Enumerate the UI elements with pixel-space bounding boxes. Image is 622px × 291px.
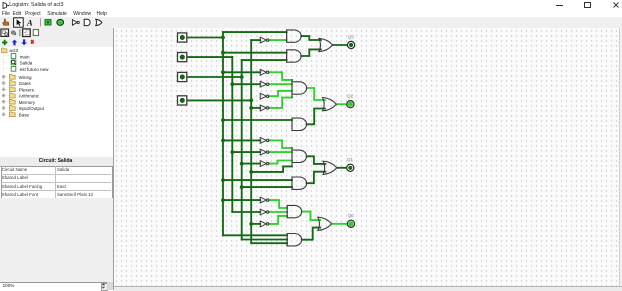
wire A7 output to OR4 input 1	[301, 212, 320, 221]
wire X2 to N3 input	[232, 83, 260, 85]
wire bus X4 vertical (pin3 net)	[240, 60, 242, 239]
AND gate A2	[286, 50, 301, 62]
library row Arithmetic	[2, 93, 40, 99]
input pin P1	[177, 33, 186, 42]
edit tool selected box	[14, 18, 24, 27]
wire OR4 output to pin Q0	[331, 223, 347, 225]
wire X2 to N10 input	[232, 211, 260, 213]
junction J2	[221, 51, 225, 55]
svg-text:Q2: Q2	[347, 94, 354, 99]
gray filler below table	[0, 198, 113, 281]
AND gate A5	[292, 147, 307, 167]
output pin Q2	[346, 101, 353, 108]
input pin P3	[177, 73, 186, 82]
wire N3 output to A3 input 2	[268, 83, 291, 85]
output pin Q3	[347, 42, 354, 49]
NOT gate N9	[260, 197, 269, 203]
wire X4 to N8 input	[241, 163, 260, 165]
library row Base	[2, 112, 29, 118]
library row Wiring	[2, 75, 32, 81]
wire N2 output to A3 input 1	[268, 73, 291, 81]
junction J7	[221, 198, 225, 202]
NOT gate N4	[260, 94, 269, 100]
wire A2 output to OR1 input 2	[301, 50, 321, 57]
wire bus X5 vertical (pin4 net)	[250, 40, 252, 243]
wire X1 to N2 input	[223, 72, 260, 74]
act3 folder icon	[1, 48, 7, 53]
wire A3 output to OR2 input 1	[306, 88, 324, 100]
NOT gate N5	[260, 105, 269, 111]
NOT gate N11	[260, 221, 269, 227]
wire X5 to N1 input	[251, 39, 260, 41]
wire A4 output to OR2 input 2	[306, 109, 324, 125]
library row Memory	[2, 100, 36, 106]
wire bus X1 vertical (pin1 net)	[222, 32, 224, 235]
svg-text:Q1: Q1	[346, 157, 353, 162]
junction J1	[221, 36, 225, 40]
separator	[19, 29, 20, 36]
junction J16	[249, 222, 253, 226]
junction J11	[239, 162, 243, 166]
output pin Q1	[346, 164, 353, 171]
wire N6 output to A5 input 1	[268, 141, 291, 149]
svg-text:Wiring: Wiring	[19, 75, 32, 80]
wire X1 to A6 input 1	[223, 179, 292, 181]
poke tool hand	[3, 19, 9, 25]
junction J12	[239, 185, 243, 189]
junction J10	[239, 75, 243, 79]
row3: add circuit plus	[2, 40, 7, 45]
wire bus X2 vertical (pin2 net)	[231, 57, 233, 212]
Salida circuit icon (current, magnifier)	[11, 60, 16, 65]
wire X2 to N7 input	[232, 151, 260, 153]
library row Plexers	[2, 87, 35, 93]
input pin P2	[177, 53, 186, 62]
NOT tool	[72, 20, 77, 26]
svg-text:Arithmetic: Arithmetic	[19, 94, 40, 99]
wire OR1 output to pin Q3	[332, 44, 347, 46]
wire X1 to A4 input 1	[223, 119, 292, 121]
wire A8 output to OR4 input 2	[301, 228, 320, 240]
junction J14	[249, 106, 253, 110]
AND gate A3	[292, 79, 307, 98]
wire X4 to A8 input 2	[241, 239, 286, 241]
wire A6 output to OR3 input 2	[306, 172, 325, 184]
OR gate OR3	[323, 161, 337, 174]
wire X4 to A2 input 2	[241, 59, 286, 61]
toolbar row 1 (full width)	[0, 17, 622, 29]
move up arrow	[12, 40, 18, 46]
wire pin3 to bus X4	[186, 76, 241, 78]
svg-text:Gates: Gates	[19, 81, 32, 86]
NOT gate N6	[260, 138, 269, 144]
wire OR3 output to pin Q1	[336, 167, 346, 169]
junction J3	[221, 71, 225, 75]
OR gate OR1	[318, 39, 332, 52]
remove circuit x	[30, 40, 34, 45]
tree connector lines	[4, 53, 11, 109]
OR gate OR2	[322, 98, 336, 111]
NOT gate N8	[260, 161, 269, 167]
junction J15	[249, 170, 253, 174]
AND gate A8	[287, 234, 302, 246]
window controls	[556, 5, 563, 6]
wire X1 to A8 input 1	[223, 235, 287, 237]
wire N8 output to A5 input 3	[268, 161, 291, 164]
title bar	[0, 0, 622, 17]
explorer tree pane	[0, 47, 113, 157]
est futuro new circuit icon	[11, 67, 16, 72]
svg-text:Memory: Memory	[19, 100, 36, 105]
wire X5 to N11 input	[251, 223, 260, 225]
simulate view button (hand)	[11, 31, 16, 35]
svg-text:Input/Output: Input/Output	[19, 106, 45, 111]
wire N7 output to A5 input 2	[268, 151, 291, 153]
separator	[40, 19, 41, 27]
wire N4 output to A3 input 3	[268, 91, 291, 96]
toolbox view button	[1, 29, 9, 36]
output pin tool	[57, 20, 64, 26]
left panel toolbars rows 2-3	[0, 28, 113, 47]
junction J4	[221, 118, 225, 122]
menu bar	[2, 11, 10, 17]
NOT gate N2	[260, 70, 269, 76]
wire X5 to A5 input 4	[251, 167, 292, 173]
junction J6	[221, 178, 225, 182]
junction J5	[221, 139, 225, 143]
panel/canvas divider	[113, 28, 114, 290]
library row Gates	[2, 81, 31, 87]
NOT gate N1	[260, 37, 269, 43]
AND tool	[84, 19, 90, 25]
AND gate A7	[287, 206, 302, 218]
junction J8	[230, 83, 234, 87]
NOT gate N10	[260, 209, 269, 215]
AND gate A1	[286, 30, 301, 42]
wire N9 output to A7 input 1	[268, 200, 286, 208]
wire A1 output to OR1 input 1	[301, 36, 321, 40]
svg-text:Q0: Q0	[347, 213, 354, 218]
wire pin1 to bus X1	[186, 37, 222, 39]
wire X1 to A2 input 1	[223, 52, 287, 54]
AND gate A6	[292, 177, 307, 189]
wire N11 output to A7 input 3	[268, 216, 286, 224]
NOT gate N3	[260, 82, 269, 88]
NOT gate N7	[260, 149, 269, 155]
svg-text:Plexers: Plexers	[19, 88, 35, 93]
wire N10 output to A7 input 2	[268, 211, 286, 213]
bottom scrollbar strip	[114, 286, 622, 291]
junction J13	[249, 99, 253, 103]
wire A5 output to OR3 input 1	[306, 157, 325, 165]
wire pin4 to bus X5	[186, 100, 250, 102]
junction J9	[230, 150, 234, 154]
svg-text:A: A	[26, 18, 33, 28]
layout edit button (selected)	[23, 29, 31, 37]
output pin Q0	[347, 220, 354, 227]
wire pin2 to bus X2	[186, 56, 232, 58]
wire X1 to N6 input	[223, 140, 260, 142]
wire N5 output to A3 input 4	[268, 98, 291, 108]
right scrollbar strip	[619, 28, 622, 290]
input pin P4	[177, 96, 186, 105]
wire X1 to A1 input 1	[223, 31, 287, 33]
library row Input/Output	[2, 106, 45, 112]
wire OR2 output to pin Q2	[336, 103, 346, 105]
svg-text:Base: Base	[19, 113, 30, 118]
zoom bar	[0, 282, 107, 291]
appearance edit button	[33, 30, 38, 36]
input pin tool	[45, 20, 51, 25]
canvas	[114, 28, 619, 290]
wire X1 to N9 input	[223, 199, 260, 201]
move down arrow	[21, 40, 27, 46]
AND gate A4	[292, 118, 307, 130]
svg-text:Q3: Q3	[347, 35, 354, 40]
attribute table	[1, 166, 114, 200]
main circuit icon	[11, 54, 16, 59]
wire X4 to A6 input 2	[241, 186, 291, 188]
wire X5 to A8 input 3	[251, 242, 287, 244]
OR gate OR4	[317, 217, 331, 230]
OR tool	[96, 19, 102, 25]
attribute panel header	[0, 157, 113, 166]
wire X5 to N5 input	[251, 107, 260, 109]
wire N1 output to A1 input 2	[268, 39, 286, 41]
